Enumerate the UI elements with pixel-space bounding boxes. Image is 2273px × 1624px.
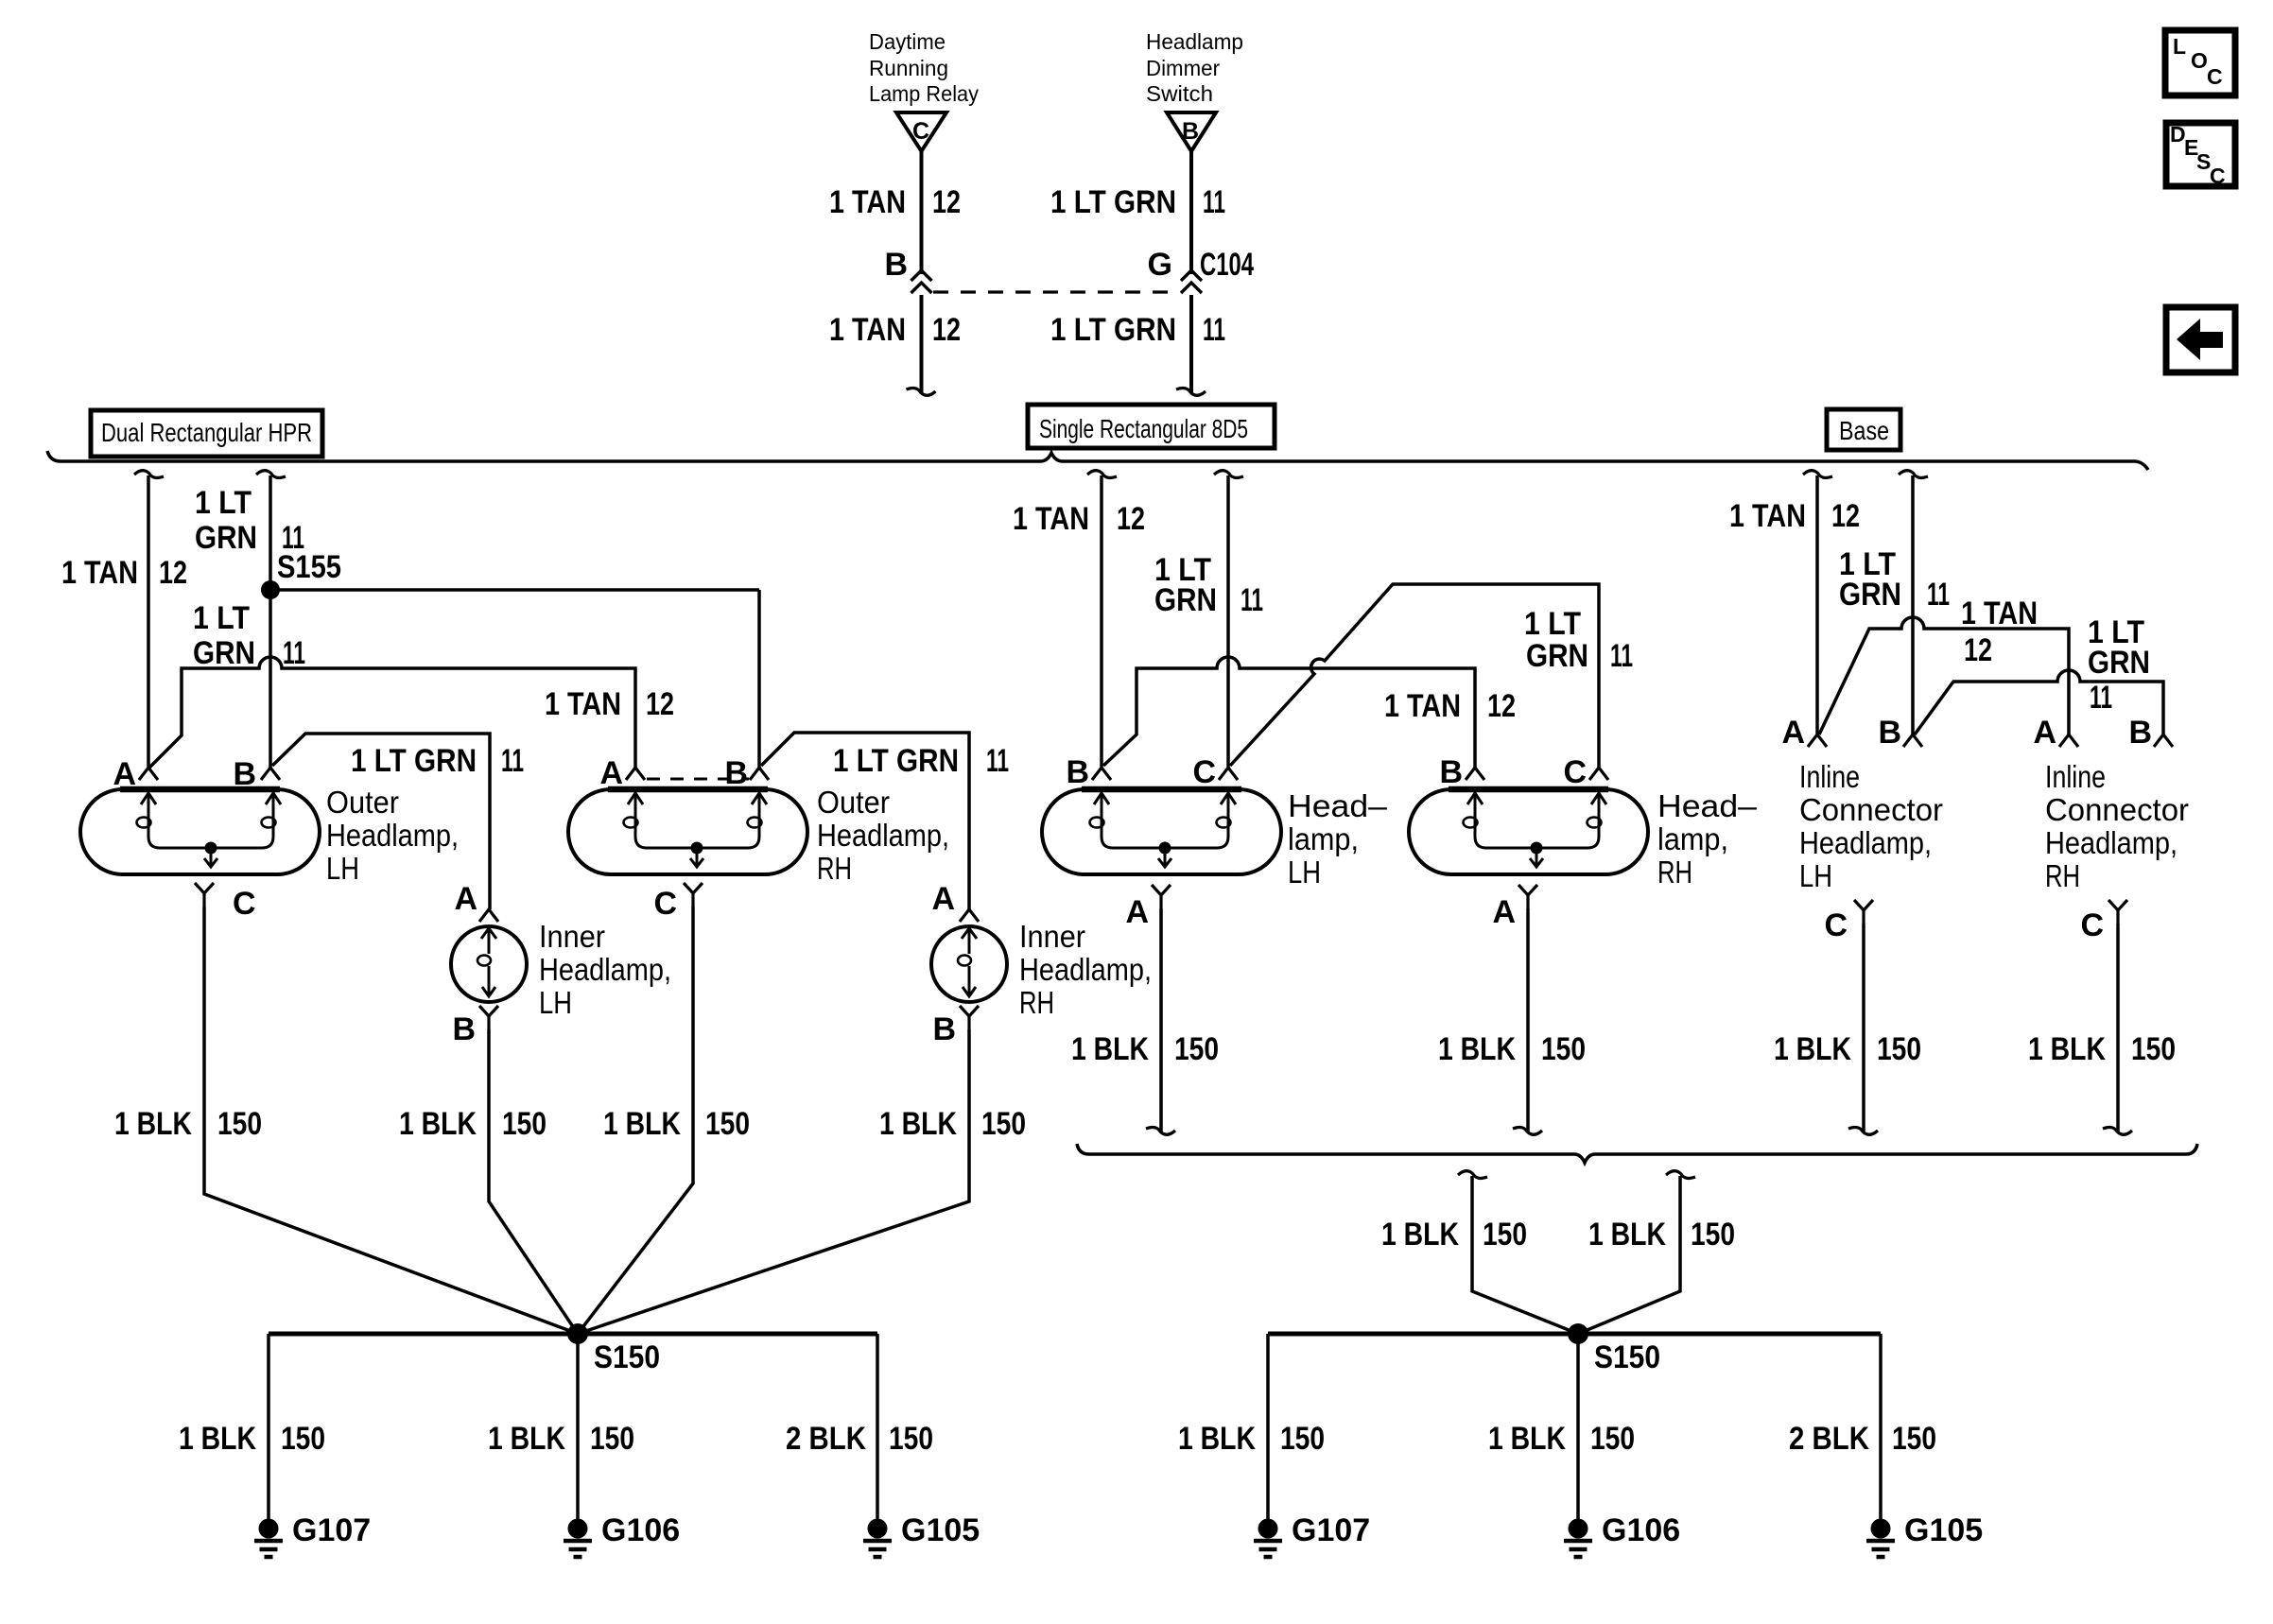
inline connector RH pin C [2108, 900, 2127, 924]
svg-text:1 BLK: 1 BLK [1381, 1217, 1459, 1253]
svg-text:G105: G105 [1904, 1512, 1983, 1548]
svg-text:1 BLK: 1 BLK [879, 1106, 957, 1142]
svg-text:1 LT GRN: 1 LT GRN [1050, 312, 1176, 348]
inner headlamp LH bulb [451, 926, 527, 1002]
dashed harness tie line C104 [933, 290, 1178, 293]
back-arrow box [2166, 307, 2235, 372]
svg-text:B: B [1439, 754, 1463, 790]
wire 1 BLK 150 inner RH B to S150 [578, 1029, 969, 1334]
svg-text:Lamp Relay: Lamp Relay [869, 81, 979, 106]
svg-text:150: 150 [1280, 1421, 1325, 1457]
svg-text:G106: G106 [1602, 1512, 1680, 1548]
svg-text:lamp,: lamp, [1657, 821, 1728, 856]
svg-text:150: 150 [1590, 1421, 1635, 1457]
svg-text:A: A [454, 881, 477, 917]
svg-text:Headlamp,: Headlamp, [539, 952, 671, 987]
svg-text:C: C [1192, 754, 1216, 790]
svg-text:150: 150 [1691, 1217, 1735, 1253]
svg-text:1 BLK: 1 BLK [488, 1421, 565, 1457]
svg-text:A: A [1492, 894, 1516, 930]
group box Dual Rectangular HPR [91, 410, 322, 457]
svg-text:11: 11 [986, 743, 1009, 779]
svg-text:150: 150 [1877, 1031, 1921, 1067]
svg-text:Outer: Outer [326, 785, 399, 820]
svg-text:LH: LH [1288, 855, 1321, 890]
ground G105 [1871, 1519, 1891, 1539]
svg-text:Inline: Inline [1799, 759, 1860, 794]
svg-text:B: B [724, 755, 748, 791]
wire 1 LT GRN 11 jumper inline LH B to inline RH B [1915, 670, 2163, 736]
svg-text:O: O [2191, 48, 2208, 73]
svg-text:lamp,: lamp, [1288, 821, 1359, 856]
svg-text:C: C [1824, 907, 1848, 943]
svg-text:RH: RH [1657, 855, 1692, 890]
outer headlamp RH pin C [684, 883, 703, 907]
svg-text:A: A [1125, 894, 1149, 930]
svg-text:1 TAN: 1 TAN [1384, 688, 1461, 724]
wire 1 LT GRN 11 from dimmer switch [1189, 151, 1193, 274]
svg-text:11: 11 [501, 743, 524, 779]
wire S155 to outer headlamp RH pin B (1 LT GRN) [270, 588, 759, 592]
harness brace line [47, 451, 2148, 470]
svg-text:C: C [912, 118, 929, 145]
ground G107 [1258, 1519, 1278, 1539]
svg-text:150: 150 [1892, 1421, 1936, 1457]
svg-text:150: 150 [281, 1421, 325, 1457]
svg-text:150: 150 [705, 1106, 750, 1142]
svg-text:B: B [1182, 118, 1199, 145]
svg-text:1 BLK: 1 BLK [1488, 1421, 1566, 1457]
svg-text:1 LT GRN: 1 LT GRN [1050, 184, 1176, 220]
svg-text:1 BLK: 1 BLK [179, 1421, 256, 1457]
group box Base [1827, 409, 1900, 450]
svg-text:Base: Base [1839, 416, 1889, 445]
svg-text:S150: S150 [1594, 1339, 1660, 1375]
wire 1 BLK 150 outer LH C to S150 [204, 907, 578, 1334]
svg-text:12: 12 [932, 184, 961, 220]
svg-text:12: 12 [1487, 688, 1516, 724]
wire 1 TAN 12 stub to headlamp LH pin B [1087, 471, 1117, 478]
svg-text:B: B [2128, 715, 2152, 751]
wire 1 LT GRN 11 below C104 [1189, 295, 1193, 393]
svg-text:C: C [233, 886, 256, 922]
svg-text:1 BLK: 1 BLK [603, 1106, 681, 1142]
svg-text:12: 12 [646, 686, 674, 722]
svg-text:12: 12 [1964, 632, 1992, 668]
svg-text:1 BLK: 1 BLK [114, 1106, 192, 1142]
outer headlamp LH bulb [80, 789, 320, 874]
group box Single Rectangular 8D5 [1028, 405, 1275, 448]
ground G107 [259, 1519, 279, 1539]
svg-text:RH: RH [1019, 985, 1054, 1020]
svg-text:1 BLK: 1 BLK [1438, 1031, 1516, 1067]
svg-text:12: 12 [932, 312, 961, 348]
svg-text:B: B [1878, 715, 1901, 751]
svg-text:A: A [1781, 715, 1805, 751]
svg-text:LH: LH [539, 985, 572, 1020]
svg-text:1 LT: 1 LT [193, 600, 250, 636]
inline connector LH pin C [1854, 900, 1873, 924]
svg-text:1 TAN: 1 TAN [1729, 498, 1806, 534]
svg-text:12: 12 [1831, 498, 1860, 534]
svg-text:C: C [1563, 754, 1587, 790]
svg-text:150: 150 [217, 1106, 262, 1142]
svg-text:Connector: Connector [2045, 792, 2189, 827]
svg-text:150: 150 [2131, 1031, 2176, 1067]
svg-text:Switch: Switch [1146, 81, 1213, 106]
svg-text:Connector: Connector [1799, 792, 1943, 827]
wire 1 BLK 150 outer RH C to S150 [578, 907, 693, 1334]
svg-text:1 TAN: 1 TAN [61, 555, 138, 591]
ground G106 [568, 1519, 588, 1539]
wire 1 LT GRN 11 outer RH pin B to inner RH pin A [761, 733, 969, 909]
wire 1 BLK 150 inline LH C down [1862, 924, 1865, 1132]
svg-text:12: 12 [159, 555, 187, 591]
svg-text:11: 11 [2090, 680, 2112, 716]
svg-text:B: B [884, 247, 908, 283]
svg-text:G: G [1148, 247, 1172, 283]
wire 1 BLK 150 headlamp LH A down [1159, 908, 1163, 1132]
svg-text:S150: S150 [594, 1339, 660, 1375]
svg-text:B: B [932, 1011, 956, 1047]
ground G105 [868, 1519, 888, 1539]
wire 1 LT GRN 11 outer LH pin B to inner LH pin A [272, 734, 490, 909]
svg-text:11: 11 [283, 635, 305, 671]
svg-text:150: 150 [1174, 1031, 1219, 1067]
wire 1 TAN 12 stub to outer headlamp LH pin A [134, 471, 164, 478]
svg-text:RH: RH [817, 851, 852, 886]
svg-text:1 LT: 1 LT [1524, 606, 1581, 642]
svg-text:GRN: GRN [195, 520, 257, 556]
svg-text:GRN: GRN [1154, 582, 1217, 618]
dimmer switch connector triangle B [1167, 112, 1216, 151]
svg-text:1 TAN: 1 TAN [1013, 501, 1089, 537]
svg-text:Headlamp,: Headlamp, [817, 818, 949, 853]
wire 1 BLK 150 headlamp RH A down [1526, 908, 1530, 1132]
svg-text:C: C [2207, 64, 2223, 89]
svg-text:GRN: GRN [1526, 638, 1588, 674]
svg-text:G105: G105 [901, 1512, 980, 1548]
splice S150 right [1568, 1323, 1588, 1344]
wire 1 BLK 150 stub to S150 right (right) [1666, 1171, 1695, 1179]
svg-text:Outer: Outer [817, 785, 890, 820]
svg-text:11: 11 [1203, 184, 1225, 220]
svg-text:Head–: Head– [1657, 788, 1758, 823]
svg-text:RH: RH [2045, 858, 2080, 893]
svg-text:1 TAN: 1 TAN [1961, 596, 2038, 631]
svg-text:Headlamp,: Headlamp, [1019, 952, 1152, 987]
svg-text:11: 11 [1203, 312, 1225, 348]
svg-text:12: 12 [1117, 501, 1145, 537]
headlamp LH bulb [1042, 789, 1281, 874]
svg-text:1 BLK: 1 BLK [1178, 1421, 1256, 1457]
svg-text:G106: G106 [601, 1512, 680, 1548]
svg-text:Daytime: Daytime [869, 29, 946, 54]
svg-text:C: C [2210, 164, 2226, 188]
svg-text:C: C [653, 886, 677, 922]
svg-text:GRN: GRN [1839, 577, 1901, 613]
wire 1 TAN 12 below C104 [920, 295, 924, 393]
wire 1 LT GRN 11 stub to inline connector LH pin B [1899, 471, 1928, 478]
wire 1 TAN 12 from DRL relay [920, 151, 924, 274]
svg-text:150: 150 [889, 1421, 933, 1457]
svg-text:Headlamp,: Headlamp, [1799, 825, 1932, 860]
svg-text:Headlamp,: Headlamp, [2045, 825, 2178, 860]
wire 1 TAN 12 jumper outer LH pin A to outer RH pin A [149, 657, 635, 769]
svg-text:Inline: Inline [2045, 759, 2106, 794]
svg-text:11: 11 [1610, 638, 1633, 674]
headlamp RH bulb [1409, 789, 1648, 874]
svg-text:G107: G107 [292, 1512, 371, 1548]
DESC legend box [2166, 123, 2235, 186]
wire 1 BLK 150 stub to S150 right (left) [1458, 1171, 1487, 1179]
LOC legend box [2165, 30, 2235, 95]
svg-text:GRN: GRN [2088, 645, 2150, 681]
svg-text:150: 150 [981, 1106, 1026, 1142]
svg-text:1 BLK: 1 BLK [1588, 1217, 1666, 1253]
headlamp LH pin A [1152, 885, 1171, 908]
svg-text:Single Rectangular 8D5: Single Rectangular 8D5 [1039, 414, 1248, 443]
wire 1 TAN 12 stub to inline connector LH pin A [1803, 471, 1832, 478]
wire 1 LT GRN 11 stub through S155 to outer headlamp LH pin B [256, 471, 286, 478]
dashed tie outer RH pins A-B [647, 778, 749, 781]
svg-text:1 LT GRN: 1 LT GRN [833, 743, 959, 779]
wire 1 TAN 12 jumper headlamp LH B to headlamp RH B [1103, 657, 1475, 769]
svg-text:Head–: Head– [1288, 788, 1388, 823]
svg-text:L: L [2173, 34, 2186, 59]
ground bus left [269, 1332, 877, 1337]
svg-text:G107: G107 [1292, 1512, 1370, 1548]
svg-text:150: 150 [502, 1106, 547, 1142]
svg-text:Inner: Inner [539, 919, 605, 954]
svg-text:11: 11 [1241, 582, 1263, 618]
svg-text:Inner: Inner [1019, 919, 1085, 954]
DRL relay connector triangle C [896, 112, 946, 151]
ground bus right [1268, 1332, 1881, 1337]
wire 1 LT GRN 11 jumper headlamp LH C to headlamp RH C [1230, 584, 1599, 769]
outer headlamp LH pin C [195, 883, 214, 907]
svg-text:150: 150 [590, 1421, 634, 1457]
wire 1 BLK 150 inline RH C down [2116, 924, 2120, 1132]
svg-text:1 BLK: 1 BLK [1774, 1031, 1851, 1067]
splice S150 left [567, 1323, 588, 1344]
svg-text:1 BLK: 1 BLK [2028, 1031, 2106, 1067]
svg-text:1 BLK: 1 BLK [399, 1106, 477, 1142]
svg-text:C: C [2080, 907, 2104, 943]
svg-text:1 BLK: 1 BLK [1071, 1031, 1149, 1067]
wire 1 BLK 150 inner LH B to S150 [489, 1029, 578, 1334]
svg-text:Headlamp: Headlamp [1146, 29, 1243, 54]
svg-text:GRN: GRN [193, 635, 255, 671]
wire 1 LT GRN 11 stub to headlamp LH pin C [1214, 471, 1243, 478]
svg-text:S155: S155 [277, 549, 341, 585]
svg-text:150: 150 [1483, 1217, 1527, 1253]
svg-text:11: 11 [1927, 577, 1950, 613]
outer headlamp RH bulb [568, 789, 807, 874]
svg-text:LH: LH [1799, 858, 1832, 893]
svg-text:LH: LH [326, 851, 359, 886]
svg-text:1 LT GRN: 1 LT GRN [351, 743, 477, 779]
svg-text:2 BLK: 2 BLK [1789, 1421, 1869, 1457]
wire 1 TAN 12 jumper inline LH A to inline RH A [1819, 617, 2069, 736]
svg-text:A: A [599, 755, 623, 791]
svg-text:B: B [1066, 754, 1089, 790]
svg-text:1 TAN: 1 TAN [829, 184, 906, 220]
svg-text:B: B [452, 1011, 476, 1047]
svg-text:1 TAN: 1 TAN [829, 312, 906, 348]
svg-text:A: A [931, 881, 955, 917]
svg-text:1 LT: 1 LT [195, 485, 252, 521]
svg-text:150: 150 [1541, 1031, 1586, 1067]
ground G106 [1569, 1519, 1588, 1539]
svg-text:A: A [2033, 715, 2056, 751]
svg-text:Running: Running [869, 56, 948, 80]
harness brace bottom [1077, 1144, 2197, 1163]
inner headlamp RH bulb [931, 926, 1007, 1002]
svg-text:1 TAN: 1 TAN [545, 686, 621, 722]
svg-text:Dimmer: Dimmer [1146, 56, 1220, 80]
svg-text:Headlamp,: Headlamp, [326, 818, 459, 853]
svg-text:C104: C104 [1200, 247, 1254, 283]
svg-text:Dual Rectangular HPR: Dual Rectangular HPR [101, 418, 312, 447]
headlamp RH pin A [1518, 885, 1537, 908]
svg-text:2 BLK: 2 BLK [786, 1421, 866, 1457]
